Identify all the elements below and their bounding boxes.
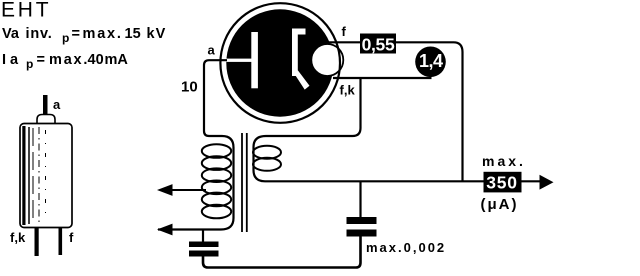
svg-text:max.: max. bbox=[83, 26, 123, 42]
wire: C2 up to output line bbox=[359, 181, 361, 217]
transformer T1 primary loop 6 bbox=[202, 205, 231, 219]
svg-text:Va: Va bbox=[2, 26, 20, 42]
marker 1,4 (filament voltage) bbox=[415, 47, 446, 78]
svg-text:a: a bbox=[208, 43, 216, 58]
tube body shading band bbox=[22, 126, 25, 225]
tube pin f,k bbox=[35, 228, 39, 257]
filament diagonal (white) bbox=[292, 71, 309, 90]
svg-text:max.: max. bbox=[49, 52, 89, 68]
wire a: from symbol to left then down to primary top bbox=[158, 60, 234, 229]
filament spine (white) bbox=[292, 29, 298, 77]
svg-text:a: a bbox=[53, 97, 61, 112]
svg-text:Ia: Ia bbox=[2, 52, 22, 68]
svg-text:f,k: f,k bbox=[340, 83, 356, 98]
svg-text:0,55: 0,55 bbox=[362, 35, 395, 55]
tap wire to arrow (primary tap) bbox=[160, 189, 206, 191]
capacitor C2 top plate bbox=[347, 217, 377, 224]
arrowhead primary tap bbox=[157, 184, 173, 196]
svg-text:15: 15 bbox=[125, 26, 141, 42]
svg-text:(μA): (μA) bbox=[481, 196, 519, 213]
anode lead inside disc (white) bbox=[227, 59, 253, 62]
filament connection circle bbox=[311, 44, 343, 76]
transformer T1 primary loop 5 bbox=[202, 193, 231, 207]
tube body inner line 2 bbox=[32, 128, 34, 222]
svg-text:p: p bbox=[26, 57, 33, 71]
svg-text:p: p bbox=[62, 31, 69, 45]
anode plate (white bar) bbox=[251, 32, 258, 88]
tube pin f bbox=[59, 228, 63, 256]
tube physical outline: anode top-cap lead bbox=[43, 95, 48, 115]
svg-text:f: f bbox=[69, 230, 74, 245]
svg-text:max.: max. bbox=[482, 153, 526, 169]
tube body dash-dot line 2 bbox=[45, 130, 47, 220]
transformer T1 primary loop 3 bbox=[202, 168, 231, 182]
capacitor C2 bottom plate bbox=[347, 230, 377, 237]
svg-text:40: 40 bbox=[88, 52, 104, 68]
tube symbol V1: black disc bbox=[226, 9, 333, 116]
svg-text:=: = bbox=[72, 26, 80, 42]
svg-text:1,4: 1,4 bbox=[419, 51, 443, 71]
tube top cap bbox=[37, 115, 55, 124]
wire: primary bottom down to capacitor C1 bbox=[202, 230, 204, 242]
svg-text:max.0,002: max.0,002 bbox=[366, 240, 446, 255]
transformer T1 primary loop 1 bbox=[202, 144, 231, 158]
tube body envelope bbox=[20, 124, 72, 228]
output arrowhead bbox=[540, 175, 554, 190]
filament top arm (white) bbox=[292, 29, 306, 35]
transformer T1 secondary loop 2 bbox=[253, 158, 281, 171]
transformer T1 primary loop 2 bbox=[202, 156, 231, 170]
tube body inner line bbox=[28, 127, 30, 224]
tube body dash-dot centerline bbox=[38, 127, 40, 223]
transformer T1 primary loop 4 bbox=[202, 181, 231, 195]
transformer core line 1 bbox=[241, 133, 243, 232]
svg-text:kV: kV bbox=[147, 26, 167, 42]
value box 350 bbox=[484, 172, 522, 193]
arrowhead primary bottom bbox=[157, 224, 173, 236]
wire: bottom bus from C1 to C2 bbox=[203, 237, 361, 268]
svg-text:=: = bbox=[37, 52, 45, 68]
tube envelope outer ring bbox=[220, 3, 340, 123]
value box 0,55 bbox=[360, 34, 396, 54]
transformer core line 2 bbox=[246, 133, 248, 232]
svg-text:inv.: inv. bbox=[26, 26, 53, 42]
wire f: top wire to right and down bbox=[328, 42, 463, 181]
svg-text:10: 10 bbox=[181, 79, 198, 96]
svg-text:EHT: EHT bbox=[1, 0, 51, 22]
svg-text:350: 350 bbox=[486, 172, 518, 192]
svg-text:f,k: f,k bbox=[10, 230, 26, 245]
svg-text:f: f bbox=[342, 24, 347, 39]
capacitor C1 bottom plate bbox=[189, 251, 219, 257]
transformer T1 secondary loop 1 bbox=[253, 146, 281, 159]
svg-text:mA: mA bbox=[105, 52, 129, 68]
capacitor C1 top plate bbox=[189, 242, 219, 248]
wire f,k horizontal to 1.4 marker bbox=[333, 77, 432, 79]
wire f,k branch down to secondary top, then secondary envelope and output line bbox=[254, 78, 541, 181]
